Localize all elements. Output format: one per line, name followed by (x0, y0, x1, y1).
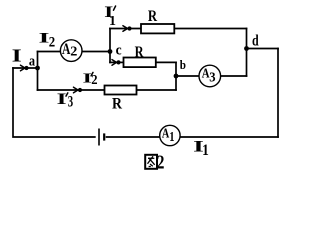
svg-text:1: 1 (169, 129, 174, 144)
svg-text:2: 2 (70, 44, 77, 59)
svg-text:a: a (29, 53, 36, 69)
svg-text:R: R (112, 96, 122, 113)
svg-text:A: A (162, 126, 169, 141)
svg-text:R: R (148, 8, 158, 25)
svg-text:3: 3 (68, 92, 73, 110)
svg-text:c: c (116, 42, 122, 58)
svg-text:R: R (135, 43, 144, 61)
svg-text:1: 1 (202, 142, 209, 159)
svg-text:d: d (252, 32, 259, 49)
svg-text:1: 1 (109, 14, 116, 29)
svg-text:b: b (180, 57, 186, 72)
svg-text:2: 2 (49, 35, 55, 51)
svg-text:I: I (12, 46, 22, 66)
svg-text:I: I (57, 90, 67, 108)
svg-text:3: 3 (209, 71, 215, 86)
svg-text:2: 2 (157, 152, 165, 174)
